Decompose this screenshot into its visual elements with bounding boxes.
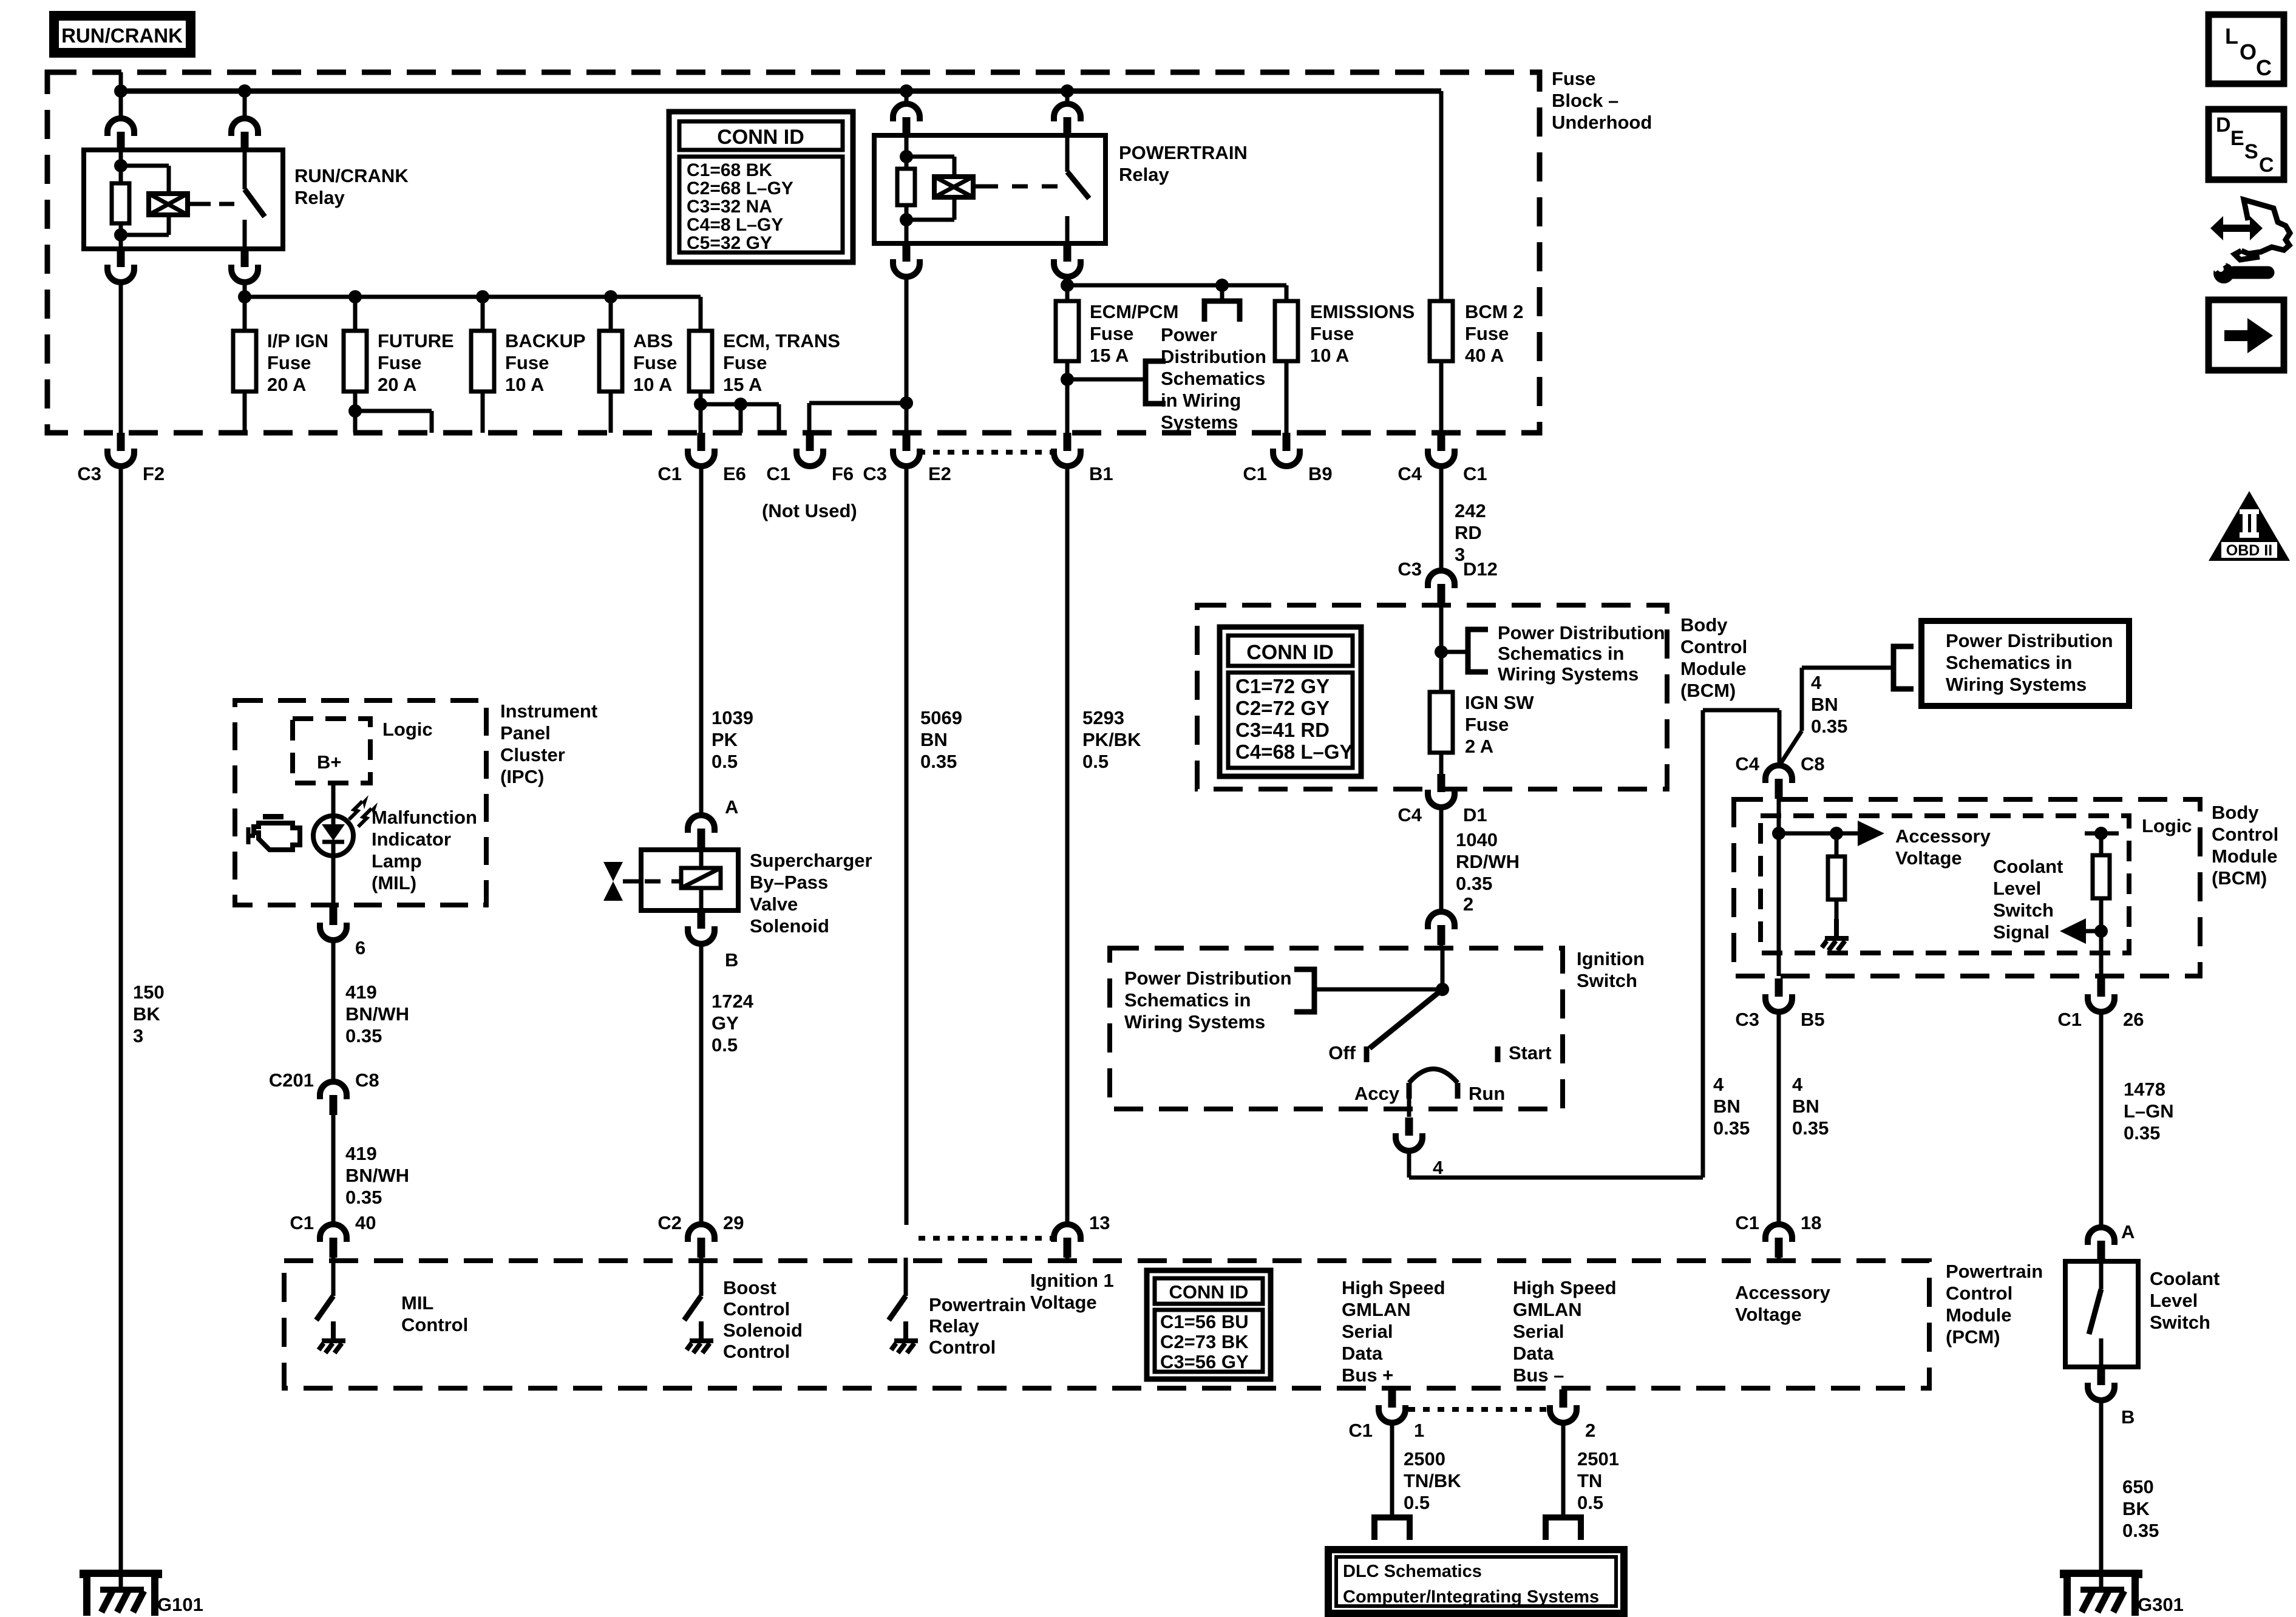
svg-text:RUN/CRANK: RUN/CRANK <box>61 24 183 47</box>
dotted jumper 38-13 <box>919 1236 1054 1241</box>
svg-text:5293: 5293 <box>1082 707 1124 728</box>
CONN ID table (fuse block) <box>669 112 853 262</box>
svg-text:BN: BN <box>1811 694 1838 715</box>
node bus-powertrain switch <box>1061 84 1074 98</box>
svg-text:CONN ID: CONN ID <box>1246 641 1334 664</box>
relay RUN/CRANK: top connectors <box>243 91 247 119</box>
svg-text:(IPC): (IPC) <box>500 766 544 787</box>
svg-text:C3=32 NA: C3=32 NA <box>687 197 772 217</box>
svg-text:TN: TN <box>1577 1470 1602 1491</box>
CONN ID table (PCM) <box>1147 1270 1271 1379</box>
svg-text:419: 419 <box>345 981 377 1003</box>
svg-text:D1: D1 <box>1463 804 1487 825</box>
connector C201 C8 <box>320 1082 347 1115</box>
svg-text:(BCM): (BCM) <box>1680 680 1736 701</box>
wire ign input <box>1441 948 1445 989</box>
svg-text:18: 18 <box>1801 1212 1821 1233</box>
svg-text:B5: B5 <box>1801 1009 1825 1030</box>
svg-text:OBD II: OBD II <box>2226 542 2272 559</box>
connector C2 29 <box>688 1224 715 1258</box>
svg-text:ECM/PCM: ECM/PCM <box>1090 301 1178 322</box>
svg-text:40 A: 40 A <box>1465 345 1504 366</box>
svg-text:Signal: Signal <box>1993 921 2050 943</box>
svg-text:C5=32 GY: C5=32 GY <box>687 233 772 253</box>
svg-text:Accessory: Accessory <box>1895 825 1991 847</box>
svg-text:Supercharger: Supercharger <box>750 850 872 871</box>
svg-text:0.35: 0.35 <box>1713 1117 1750 1139</box>
wire accessory voltage <box>1779 832 1858 836</box>
svg-text:TN/BK: TN/BK <box>1404 1470 1461 1491</box>
relay RUN/CRANK coil branch <box>119 150 123 183</box>
lightning arrows <box>349 801 362 819</box>
svg-text:Switch: Switch <box>1577 970 1637 991</box>
svg-text:BK: BK <box>2122 1498 2150 1519</box>
wire inside BCM <box>1439 604 1444 692</box>
wire bus to BCM2 fuse <box>1439 91 1444 301</box>
svg-text:BACKUP: BACKUP <box>505 330 586 351</box>
svg-text:C: C <box>2256 55 2272 80</box>
svg-text:Coolant: Coolant <box>1993 856 2063 877</box>
wire 1040 RD/WH <box>1439 807 1444 912</box>
fuse BCM2 40A <box>1430 301 1453 361</box>
wire F6 jog <box>807 403 812 433</box>
svg-text:242: 242 <box>1455 500 1486 521</box>
svg-text:Coolant: Coolant <box>2150 1268 2220 1289</box>
Accy-Run bridge <box>1409 1069 1458 1083</box>
svg-text:150: 150 <box>133 981 165 1003</box>
svg-text:Ignition: Ignition <box>1577 948 1645 969</box>
contact Accy <box>1407 1083 1412 1099</box>
svg-text:0.35: 0.35 <box>1456 873 1492 894</box>
svg-text:2: 2 <box>1585 1420 1595 1441</box>
wire 1724 GY <box>699 943 704 1225</box>
svg-text:Fuse: Fuse <box>1465 323 1509 344</box>
svg-text:C1: C1 <box>1348 1420 1373 1441</box>
contact Off <box>1364 1046 1370 1062</box>
svg-text:Level: Level <box>2150 1290 2198 1311</box>
svg-text:Module: Module <box>1946 1304 2012 1326</box>
svg-text:CONN ID: CONN ID <box>717 126 804 149</box>
svg-text:0.5: 0.5 <box>1082 751 1109 772</box>
icon hand with wrench <box>2210 216 2263 240</box>
wire powertrain coil to E2 <box>905 276 909 435</box>
svg-text:0.35: 0.35 <box>345 1187 382 1208</box>
Instrument Panel Cluster dashed box <box>235 700 486 905</box>
svg-text:Wiring Systems: Wiring Systems <box>1498 663 1639 685</box>
svg-text:Accessory: Accessory <box>1735 1282 1831 1303</box>
wire to ECM/PCM fuse <box>1065 276 1070 301</box>
svg-text:4: 4 <box>1811 672 1822 693</box>
svg-text:E: E <box>2230 127 2244 150</box>
svg-text:Powertrain: Powertrain <box>929 1294 1026 1315</box>
svg-text:C2=73 BK: C2=73 BK <box>1160 1331 1249 1352</box>
wire Accy output <box>1407 1099 1411 1117</box>
connector A coolant <box>2088 1227 2114 1261</box>
svg-text:40: 40 <box>355 1212 376 1233</box>
relay POWERTRAIN coil branch <box>905 135 909 169</box>
svg-text:10 A: 10 A <box>1310 345 1349 366</box>
svg-text:C4=8 L–GY: C4=8 L–GY <box>687 215 783 235</box>
svg-text:Computer/Integrating Systems: Computer/Integrating Systems <box>1343 1587 1599 1607</box>
fuse row bus <box>245 295 701 299</box>
svg-text:Relay: Relay <box>1119 164 1169 185</box>
svg-text:(Not Used): (Not Used) <box>762 500 857 521</box>
svg-text:C1: C1 <box>290 1212 314 1233</box>
relay POWERTRAIN switch <box>1065 135 1070 172</box>
svg-text:1039: 1039 <box>712 707 753 728</box>
fuse ECM/PCM 15A <box>1056 301 1079 361</box>
svg-text:0.35: 0.35 <box>345 1025 382 1046</box>
wire to EMISSIONS fuse <box>1285 285 1289 301</box>
svg-text:0.35: 0.35 <box>1811 716 1847 737</box>
node ign pivot <box>1436 983 1449 996</box>
svg-text:ECM, TRANS: ECM, TRANS <box>723 330 840 351</box>
engine icon <box>263 814 284 819</box>
svg-text:419: 419 <box>345 1143 377 1164</box>
fuse ABS 10A <box>599 331 622 392</box>
ground internal <box>1822 919 1849 951</box>
connector C1 26 <box>2088 978 2114 1012</box>
wire ign return horizontal <box>1409 1176 1703 1180</box>
svg-text:Schematics: Schematics <box>1161 368 1265 389</box>
wire 150 BK 3 <box>119 466 123 1573</box>
svg-text:6: 6 <box>355 937 365 958</box>
svg-text:C3: C3 <box>77 463 101 484</box>
svg-text:3: 3 <box>133 1025 143 1046</box>
svg-text:2: 2 <box>1463 893 1473 915</box>
wire 1039 PK to solenoid <box>699 466 704 816</box>
svg-text:C3: C3 <box>863 463 887 484</box>
svg-text:C4: C4 <box>1735 753 1759 775</box>
svg-text:Control: Control <box>929 1337 996 1358</box>
svg-text:Fuse: Fuse <box>1310 323 1354 344</box>
svg-text:Accy: Accy <box>1354 1083 1400 1104</box>
svg-text:Control: Control <box>1946 1283 2012 1304</box>
svg-text:Cluster: Cluster <box>500 744 565 765</box>
svg-text:C8: C8 <box>1801 753 1825 775</box>
connector C1 18 <box>1765 1224 1792 1258</box>
icon DESC box <box>2209 109 2284 180</box>
wire through BCM <box>1777 799 1781 976</box>
supercharger by-pass valve solenoid box <box>641 850 738 910</box>
svg-text:By–Pass: By–Pass <box>750 872 828 893</box>
svg-text:Body: Body <box>2212 802 2259 823</box>
svg-text:1724: 1724 <box>712 991 754 1012</box>
svg-text:MIL: MIL <box>401 1292 433 1314</box>
svg-text:Switch: Switch <box>1993 900 2054 921</box>
svg-text:Control: Control <box>401 1314 468 1335</box>
svg-text:C1=72 GY: C1=72 GY <box>1235 675 1330 697</box>
svg-text:C4: C4 <box>1398 804 1422 825</box>
connector 2 <box>1428 912 1455 945</box>
connector C3 B5 <box>1765 978 1792 1012</box>
svg-text:BN: BN <box>1792 1096 1819 1117</box>
svg-text:650: 650 <box>2122 1476 2154 1497</box>
svg-text:Logic: Logic <box>2142 815 2192 836</box>
svg-text:Instrument: Instrument <box>500 700 597 722</box>
svg-text:C1: C1 <box>766 463 790 484</box>
svg-text:C3: C3 <box>1398 558 1422 580</box>
MIL lamp LED <box>313 816 353 856</box>
fuse EMISSIONS 10A <box>1275 301 1298 361</box>
svg-text:0.35: 0.35 <box>2122 1520 2159 1541</box>
svg-text:Control: Control <box>723 1298 790 1320</box>
valve bowtie symbol <box>603 862 623 901</box>
svg-text:Schematics in: Schematics in <box>1946 652 2072 673</box>
svg-text:15 A: 15 A <box>723 374 762 395</box>
svg-text:Power Distribution: Power Distribution <box>1124 968 1292 989</box>
svg-text:High Speed: High Speed <box>1513 1277 1617 1298</box>
wire 2501 TN <box>1561 1422 1566 1516</box>
svg-text:10 A: 10 A <box>633 374 672 395</box>
svg-text:E6: E6 <box>723 463 746 484</box>
node bus-runcrank switch <box>238 84 251 98</box>
icon LOC box <box>2209 15 2284 84</box>
wire 242 RD <box>1439 466 1444 571</box>
relay POWERTRAIN: top connectors <box>905 91 909 104</box>
ground G301 <box>2063 1573 2139 1616</box>
svg-text:BN/WH: BN/WH <box>345 1003 409 1025</box>
svg-text:C4=68 L–GY: C4=68 L–GY <box>1235 741 1353 763</box>
svg-text:Fuse: Fuse <box>378 352 421 373</box>
wire 419 BN/WH lower <box>331 1115 336 1225</box>
RUN/CRANK title box <box>49 11 195 58</box>
Coolant Level Switch box <box>2065 1261 2138 1367</box>
icon arrow box <box>2209 300 2284 370</box>
svg-text:RUN/CRANK: RUN/CRANK <box>294 165 409 186</box>
switch MIL control <box>331 1258 336 1296</box>
fuse outputs <box>243 392 247 433</box>
svg-text:4: 4 <box>1792 1074 1803 1095</box>
wire 2500 TN/BK <box>1390 1422 1394 1516</box>
svg-text:4: 4 <box>1433 1157 1444 1178</box>
connector C1 E6 <box>688 433 715 466</box>
dotted jumper E2-B1 <box>919 450 1054 455</box>
svg-text:IGN SW: IGN SW <box>1465 692 1534 713</box>
coolant level resistor <box>2085 832 2119 836</box>
svg-text:0.5: 0.5 <box>712 1034 738 1056</box>
svg-text:Body: Body <box>1680 614 1728 636</box>
svg-text:High Speed: High Speed <box>1342 1277 1445 1298</box>
svg-text:BN: BN <box>920 729 948 750</box>
svg-text:C3: C3 <box>1735 1009 1759 1030</box>
svg-text:Malfunction: Malfunction <box>372 807 477 828</box>
svg-text:Fuse: Fuse <box>505 352 549 373</box>
svg-text:Wiring Systems: Wiring Systems <box>1946 674 2087 695</box>
Logic dashed box <box>293 719 370 783</box>
svg-text:S: S <box>2244 140 2258 163</box>
Ignition Switch dashed box <box>1110 948 1563 1109</box>
wire 4 BN to PCM 18 <box>1777 1011 1781 1225</box>
svg-text:C3=56 GY: C3=56 GY <box>1160 1351 1249 1372</box>
wire 1478 L-GN <box>2099 1011 2104 1228</box>
svg-text:G301: G301 <box>2138 1594 2184 1615</box>
svg-text:DLC Schematics: DLC Schematics <box>1343 1562 1482 1581</box>
connector C1 40 <box>320 1224 347 1258</box>
svg-text:29: 29 <box>723 1212 744 1233</box>
relay RUN/CRANK switch <box>243 150 247 189</box>
svg-text:PK: PK <box>712 729 738 750</box>
connector C4 C1 <box>1428 433 1455 466</box>
svg-text:FUTURE: FUTURE <box>378 330 454 351</box>
svg-text:Data: Data <box>1513 1343 1554 1364</box>
svg-text:C3=41 RD: C3=41 RD <box>1235 719 1330 741</box>
ground G101 <box>83 1573 158 1616</box>
connector C4 C8 <box>1765 765 1792 799</box>
svg-text:CONN ID: CONN ID <box>1169 1281 1249 1303</box>
contact Start <box>1495 1046 1501 1062</box>
fork terminals to DLC <box>1374 1517 1410 1540</box>
svg-text:C1=56 BU: C1=56 BU <box>1160 1311 1249 1332</box>
reference box Power Distribution <box>1921 621 2129 706</box>
svg-text:L–GN: L–GN <box>2124 1100 2174 1122</box>
svg-text:2501: 2501 <box>1577 1448 1619 1470</box>
svg-text:Ignition 1: Ignition 1 <box>1030 1270 1114 1291</box>
svg-text:Powertrain: Powertrain <box>1946 1261 2043 1282</box>
svg-text:Relay: Relay <box>929 1315 979 1337</box>
fuse I/P IGN 20A <box>233 331 256 392</box>
svg-text:B1: B1 <box>1089 463 1113 484</box>
svg-text:Power Distribution: Power Distribution <box>1946 630 2113 651</box>
svg-text:GMLAN: GMLAN <box>1342 1299 1411 1320</box>
svg-text:Systems: Systems <box>1161 412 1238 433</box>
svg-text:10 A: 10 A <box>505 374 544 395</box>
svg-text:Fuse: Fuse <box>723 352 767 373</box>
svg-text:Voltage: Voltage <box>1030 1292 1097 1313</box>
svg-text:(MIL): (MIL) <box>372 872 416 893</box>
svg-text:BN/WH: BN/WH <box>345 1165 409 1186</box>
svg-text:D12: D12 <box>1463 558 1498 580</box>
connector C3 E2 <box>893 433 920 466</box>
connector 4 <box>1396 1117 1422 1151</box>
svg-text:in Wiring: in Wiring <box>1161 390 1241 411</box>
DLC Schematics box <box>1328 1550 1624 1613</box>
svg-text:ABS: ABS <box>633 330 673 351</box>
svg-text:D: D <box>2216 114 2231 137</box>
fuse ECM,TRANS 15A <box>689 331 712 392</box>
switch powertrain relay control <box>904 1258 908 1296</box>
node bus-runcrank coil <box>114 84 127 98</box>
svg-text:B: B <box>2121 1406 2135 1428</box>
svg-text:Lamp: Lamp <box>372 850 422 872</box>
svg-text:1: 1 <box>1414 1420 1424 1441</box>
svg-text:5069: 5069 <box>920 707 962 728</box>
Body Control Module dashed box 2 <box>1734 799 2200 976</box>
svg-text:Voltage: Voltage <box>1735 1304 1802 1325</box>
svg-text:C2: C2 <box>657 1212 682 1233</box>
Powertrain Control Module dashed box <box>284 1261 1929 1388</box>
svg-text:Module: Module <box>2212 846 2278 867</box>
svg-text:GMLAN: GMLAN <box>1513 1299 1582 1320</box>
svg-text:Data: Data <box>1342 1343 1383 1364</box>
relay RUN/CRANK box <box>84 150 283 249</box>
svg-text:0.35: 0.35 <box>1792 1117 1829 1139</box>
svg-text:Voltage: Voltage <box>1895 847 1962 869</box>
svg-text:Bus –: Bus – <box>1513 1364 1564 1386</box>
wire 650 BK <box>2099 1400 2104 1573</box>
svg-text:0.5: 0.5 <box>1577 1492 1603 1513</box>
node bus-powertrain coil <box>900 84 913 98</box>
wire runcrank switch to fuse bus <box>243 282 247 297</box>
svg-text:Fuse: Fuse <box>1552 68 1595 89</box>
svg-text:BK: BK <box>133 1003 160 1025</box>
GMLAN bus + connector C1 1 <box>1379 1389 1405 1423</box>
svg-text:I/P IGN: I/P IGN <box>267 330 328 351</box>
switch boost control <box>699 1258 704 1296</box>
svg-text:Relay: Relay <box>294 187 345 208</box>
svg-text:Solenoid: Solenoid <box>750 915 829 937</box>
svg-text:BN: BN <box>1713 1096 1741 1117</box>
fuse BACKUP 10A <box>471 331 494 392</box>
svg-text:C2=72 GY: C2=72 GY <box>1235 697 1330 719</box>
svg-text:Control: Control <box>723 1341 790 1362</box>
top bus wire <box>118 89 1441 94</box>
connector A <box>688 815 715 849</box>
svg-text:Block –: Block – <box>1552 90 1618 111</box>
svg-text:26: 26 <box>2123 1009 2144 1030</box>
svg-text:1040: 1040 <box>1456 829 1498 850</box>
svg-text:C1: C1 <box>2057 1009 2082 1030</box>
svg-text:Logic: Logic <box>382 719 433 740</box>
svg-text:B+: B+ <box>317 751 342 773</box>
svg-text:B9: B9 <box>1308 463 1333 484</box>
svg-text:Distribution: Distribution <box>1161 346 1266 367</box>
svg-text:C1: C1 <box>657 463 682 484</box>
svg-text:Serial: Serial <box>1513 1321 1564 1342</box>
svg-text:C1=68 BK: C1=68 BK <box>687 160 772 180</box>
wire 419 BN/WH upper <box>331 940 336 1082</box>
svg-text:C8: C8 <box>355 1070 379 1091</box>
wire 5069 BN <box>905 466 909 1225</box>
svg-text:Panel: Panel <box>500 722 551 744</box>
svg-text:13: 13 <box>1089 1212 1110 1233</box>
svg-text:4: 4 <box>1713 1074 1724 1095</box>
wire down to C8 <box>1778 710 1782 768</box>
svg-text:Solenoid: Solenoid <box>723 1320 803 1341</box>
svg-text:Schematics in: Schematics in <box>1498 643 1624 664</box>
svg-text:C2=68 L–GY: C2=68 L–GY <box>687 178 793 198</box>
svg-text:BCM 2: BCM 2 <box>1465 301 1523 322</box>
wire 4 BN to reference <box>1778 731 1802 767</box>
svg-text:20 A: 20 A <box>378 374 416 395</box>
svg-text:Fuse: Fuse <box>633 352 677 373</box>
svg-text:Bus +: Bus + <box>1342 1364 1393 1386</box>
svg-text:G101: G101 <box>157 1594 203 1615</box>
wire ign return vertical <box>1701 710 1705 1178</box>
svg-text:EMISSIONS: EMISSIONS <box>1310 301 1415 322</box>
svg-text:Fuse: Fuse <box>1465 714 1509 735</box>
svg-text:Fuse: Fuse <box>1090 323 1133 344</box>
svg-text:Off: Off <box>1328 1042 1356 1063</box>
contact Run <box>1455 1083 1461 1099</box>
Body Control Module dashed box <box>1197 605 1667 789</box>
svg-text:Level: Level <box>1993 878 2041 899</box>
svg-text:0.35: 0.35 <box>2124 1122 2160 1144</box>
connector 6 <box>320 907 347 940</box>
icon OBD II triangle <box>2209 491 2290 561</box>
svg-text:0.5: 0.5 <box>1404 1492 1430 1513</box>
svg-text:C4: C4 <box>1398 463 1422 484</box>
svg-text:2 A: 2 A <box>1465 736 1493 757</box>
fuse IGN SW 2A <box>1430 692 1453 753</box>
svg-text:Boost: Boost <box>723 1277 776 1298</box>
connector 2 <box>1550 1389 1577 1423</box>
fuse FUTURE 20A <box>344 331 367 392</box>
wire stub from border to bus <box>119 72 123 119</box>
svg-text:Power Distribution: Power Distribution <box>1498 622 1665 643</box>
svg-text:1478: 1478 <box>2124 1079 2165 1100</box>
svg-text:Module: Module <box>1680 658 1747 679</box>
